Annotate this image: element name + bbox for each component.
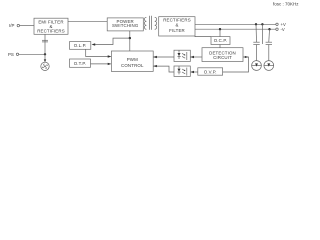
terminal +V bbox=[276, 23, 278, 25]
I/P terminal circle bbox=[17, 24, 19, 26]
svg-text:O.T.P.: O.T.P. bbox=[74, 61, 87, 66]
wire pot2 branch upper bbox=[268, 29, 271, 42]
junction on +V rail (cap/pot1 branch) bbox=[255, 23, 257, 25]
junction drive/OLP branch bbox=[129, 37, 131, 39]
arrow into fan bbox=[44, 59, 46, 62]
block O.L.P. bbox=[70, 42, 91, 50]
block RECTIFIERS & FILTER bbox=[159, 17, 195, 36]
node +V label bbox=[281, 22, 286, 32]
svg-text:O.L.P.: O.L.P. bbox=[74, 43, 87, 48]
block DETECTION CIRCUIT bbox=[202, 48, 243, 62]
fosc label bbox=[273, 1, 299, 6]
wire PWM to opto1, arrow into PWM bbox=[153, 56, 174, 58]
wire -V rail bbox=[195, 28, 276, 30]
wire filter box to O.C.P. bbox=[195, 35, 211, 38]
junction PS/fan bbox=[44, 53, 46, 55]
wire EMI to POWER SWITCHING bbox=[68, 20, 107, 22]
wire EMI box down to fan bbox=[44, 34, 46, 60]
wire detection to OVP elbow bbox=[223, 57, 249, 72]
photocoupler PC1 bbox=[174, 50, 190, 61]
block O.C.P. bbox=[211, 37, 230, 45]
transformer core bbox=[149, 16, 151, 30]
svg-text:PWM: PWM bbox=[127, 57, 138, 62]
block O.T.P. bbox=[70, 59, 91, 67]
block PWM CONTROL bbox=[111, 51, 153, 71]
potentiometer SVR2 bbox=[264, 61, 274, 71]
svg-text:-V: -V bbox=[281, 27, 285, 32]
wire branch to OLP, arrow into OLP bbox=[95, 38, 130, 44]
node PS bbox=[8, 52, 14, 57]
wire pot1 branch lower bbox=[256, 45, 258, 61]
PS terminal circle bbox=[16, 53, 18, 55]
transformer T1 primary coil bbox=[144, 17, 146, 29]
svg-text:fosc : 70KHz: fosc : 70KHz bbox=[273, 1, 299, 6]
wire OLP to PWM, arrow into PWM bbox=[86, 49, 111, 56]
wire +V rail bbox=[195, 23, 276, 25]
junction OCP stem on -V rail bbox=[219, 28, 221, 30]
terminal -V bbox=[276, 28, 278, 30]
photocoupler PC2 bbox=[174, 66, 190, 76]
svg-text:FILTER: FILTER bbox=[169, 28, 185, 33]
junction on +V rail (second branch) bbox=[261, 23, 263, 25]
block POWER SWITCHING bbox=[107, 18, 143, 31]
wire OCP to detection bbox=[219, 45, 221, 48]
svg-text:O.V.P.: O.V.P. bbox=[204, 69, 217, 74]
wire drive POWER to PWM bbox=[129, 31, 131, 51]
svg-text:SWITCHING: SWITCHING bbox=[112, 23, 139, 28]
wire -V rail to OCP bbox=[219, 29, 221, 36]
block EMI FILTER & RECTIFIERS bbox=[34, 18, 68, 34]
svg-text:CONTROL: CONTROL bbox=[121, 63, 144, 68]
svg-text:RECTIFIERS: RECTIFIERS bbox=[37, 29, 65, 34]
wire pot1 branch upper bbox=[255, 24, 258, 42]
node I/P bbox=[9, 23, 14, 28]
wire OTP to PWM, arrow into PWM bbox=[91, 63, 111, 65]
svg-text:O.C.P.: O.C.P. bbox=[214, 38, 228, 43]
svg-text:PS: PS bbox=[8, 52, 14, 57]
wire OVP to opto2 bbox=[191, 71, 198, 73]
wire pot2 branch lower bbox=[268, 45, 270, 61]
svg-text:&: & bbox=[175, 23, 178, 28]
transformer T1 secondary coil bbox=[155, 17, 157, 29]
junction on -V rail (cap/pot2 branch) bbox=[268, 28, 270, 30]
wire I/P to EMI filter bbox=[20, 25, 35, 27]
svg-text:CIRCUIT: CIRCUIT bbox=[213, 55, 232, 60]
svg-text:I/P: I/P bbox=[9, 23, 14, 28]
wire opto1 to detection, arrow into opto1 bbox=[190, 56, 202, 58]
wire second branch bbox=[261, 24, 263, 44]
fan M1 bbox=[41, 62, 49, 70]
wire PS to junction bbox=[19, 53, 45, 55]
wire opto2 to PWM elbow, arrow into PWM bbox=[153, 66, 174, 72]
capacitor C1 bbox=[253, 41, 259, 43]
block O.V.P. bbox=[198, 68, 223, 75]
capacitor on fan wire bbox=[42, 39, 48, 41]
potentiometer SVR1 bbox=[252, 61, 262, 71]
arrow into opto2 bbox=[190, 71, 194, 73]
capacitor C2 bbox=[266, 41, 272, 43]
